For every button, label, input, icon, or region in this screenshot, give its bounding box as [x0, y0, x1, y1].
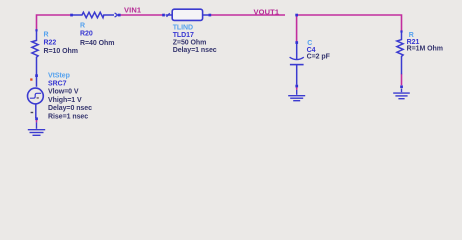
- step waveform inside: [30, 93, 41, 98]
- wire VOUT right rail: from C4 up, right, down to R21: [297, 15, 402, 42]
- svg-text:TLIND: TLIND: [173, 25, 193, 32]
- svg-text:SRC7: SRC7: [48, 81, 67, 88]
- svg-text:VIN1: VIN1: [124, 6, 141, 15]
- svg-text:C=2 pF: C=2 pF: [307, 54, 331, 61]
- svg-text:VtStep: VtStep: [48, 72, 70, 79]
- ground (R21): [393, 89, 410, 99]
- svg-text:R: R: [44, 32, 49, 39]
- resistor R20 symbol (horizontal): [73, 12, 115, 17]
- svg-text:R=1M Ohm: R=1M Ohm: [407, 45, 443, 52]
- svg-text:Delay=0 nsec: Delay=0 nsec: [48, 105, 92, 112]
- lead from circle bottom to ground dot: [35, 104, 37, 118]
- vtstep source SRC7 circle: [28, 88, 44, 118]
- svg-text:R20: R20: [80, 31, 93, 38]
- svg-text:Z=50 Ohm: Z=50 Ohm: [173, 40, 207, 47]
- svg-text:Vlow=0 V: Vlow=0 V: [48, 89, 79, 96]
- svg-text:R=40 Ohm: R=40 Ohm: [80, 40, 114, 47]
- svg-text:Delay=1 nsec: Delay=1 nsec: [173, 47, 217, 54]
- svg-text:Vhigh=1 V: Vhigh=1 V: [48, 97, 82, 104]
- wire VOUT1 segment from TLIND to label: [210, 14, 285, 16]
- wire stub R21 to ground: [401, 74, 403, 85]
- svg-text:R22: R22: [44, 40, 57, 47]
- minus terminal dash: [31, 112, 34, 113]
- capacitor C4: [290, 43, 304, 85]
- pin tick TLIND left: [167, 13, 170, 17]
- svg-text:R: R: [80, 22, 85, 29]
- svg-text:R=10 Ohm: R=10 Ohm: [44, 48, 78, 55]
- svg-text:TLD17: TLD17: [173, 32, 194, 39]
- wire VIN1 segment between R20 and TLIND: [120, 14, 164, 16]
- wire stub C4 to ground: [296, 87, 298, 90]
- junction dots (blue squares): [35, 14, 403, 120]
- transmission line TLIND box: [166, 14, 173, 16]
- plus terminal red dot: [30, 78, 32, 80]
- resistor R22 symbol (vertical): [32, 30, 38, 87]
- resistor R21 symbol (vertical): [397, 31, 403, 74]
- pin arrow R20 right: [115, 13, 118, 17]
- ground (C4): [288, 90, 305, 101]
- svg-text:Rise=1 nsec: Rise=1 nsec: [48, 113, 88, 120]
- wire stub source minus to ground: [36, 120, 38, 123]
- ground (source): [28, 122, 45, 135]
- svg-text:VOUT1: VOUT1: [254, 8, 280, 17]
- wire VIN net: left corner rail from R22 top up and right to R20: [37, 15, 71, 30]
